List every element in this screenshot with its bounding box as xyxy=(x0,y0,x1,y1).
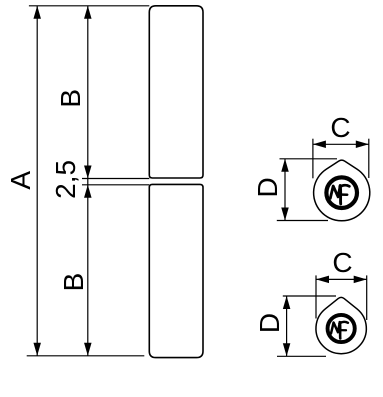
svg-text:C: C xyxy=(330,112,350,143)
svg-text:B: B xyxy=(55,89,86,108)
svg-text:C: C xyxy=(332,247,352,278)
svg-text:D: D xyxy=(254,313,285,333)
svg-text:D: D xyxy=(252,177,283,197)
svg-text:2,5: 2,5 xyxy=(50,160,81,199)
svg-text:A: A xyxy=(5,171,36,190)
svg-text:B: B xyxy=(58,273,89,292)
